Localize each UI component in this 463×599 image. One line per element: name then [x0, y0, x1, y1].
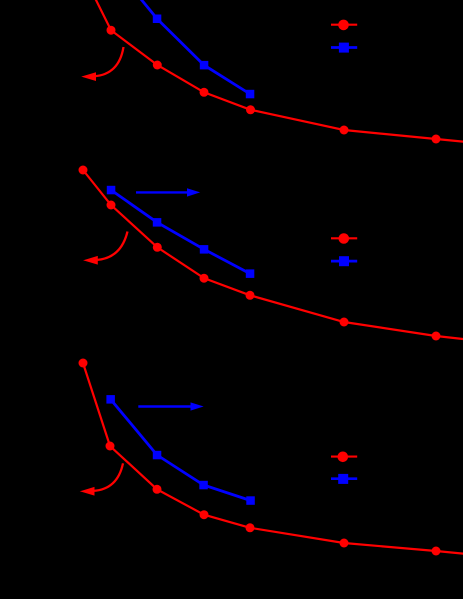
red markers panel 2	[79, 166, 441, 341]
legend panel 2 red entry	[331, 233, 357, 244]
legend panel 3 blue entry	[331, 474, 357, 484]
blue markers panel 3	[106, 395, 254, 505]
red markers panel 3	[79, 359, 441, 556]
legend panel 2 blue entry	[331, 256, 357, 266]
red curve panel 1	[95, 0, 463, 142]
blue straight arrow panel 2	[136, 189, 199, 196]
legend panel 3 red entry	[331, 452, 357, 463]
blue curve panel 1	[139, 0, 250, 94]
red curve panel 2	[83, 170, 463, 339]
red curve panel 3	[83, 363, 463, 554]
red curved arrow panel 1	[83, 47, 124, 80]
blue straight arrow panel 3	[138, 403, 202, 410]
blue curve panel 3	[111, 399, 251, 500]
legend panel 1 blue entry	[331, 43, 357, 53]
legend panel 1 red entry	[331, 20, 357, 31]
blue curve panel 2	[111, 190, 250, 274]
red markers panel 1	[107, 26, 441, 144]
red curved arrow panel 3	[82, 463, 124, 495]
blue markers panel 2	[107, 186, 255, 278]
blue markers panel 1	[153, 15, 255, 99]
red curved arrow panel 2	[85, 232, 128, 265]
